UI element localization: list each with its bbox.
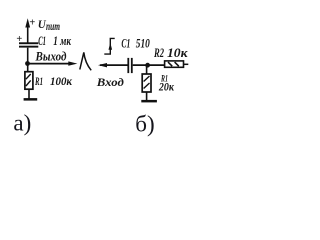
svg-text:C1: C1 — [121, 37, 130, 51]
svg-text:+: + — [29, 18, 35, 29]
svg-text:б): б) — [135, 111, 154, 136]
svg-text:а): а) — [13, 111, 31, 136]
svg-text:100к: 100к — [50, 74, 73, 88]
svg-text:Выход: Выход — [35, 49, 67, 63]
svg-text:+: + — [16, 34, 22, 45]
svg-text:R2: R2 — [153, 45, 164, 60]
svg-text:R1: R1 — [34, 74, 43, 88]
svg-text:пит: пит — [46, 19, 60, 33]
svg-text:10к: 10к — [167, 45, 188, 60]
svg-text:510: 510 — [136, 37, 151, 51]
svg-text:20к: 20к — [158, 82, 175, 94]
svg-text:C1: C1 — [38, 34, 46, 48]
svg-text:Вход: Вход — [96, 75, 124, 89]
svg-text:1 мк: 1 мк — [53, 34, 71, 48]
